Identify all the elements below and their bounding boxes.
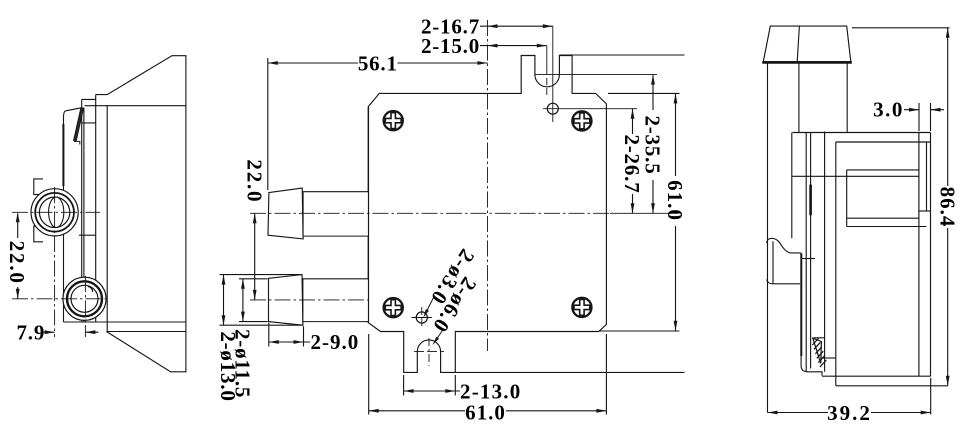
dimension 2-16.7 [480,25,553,27]
svg-text:7.9: 7.9 [16,321,45,345]
dimension 22.0 center [254,213,256,300]
left view upper port centerlines [12,211,100,213]
dimension 3.0 [918,103,920,131]
dimension 2-o13.0 [223,275,225,326]
svg-text:61.0: 61.0 [663,180,687,221]
dimension 2-9.0 [268,323,270,347]
right view rubber wedge with hatching [813,338,822,363]
bottom small hole [416,312,427,323]
svg-text:2-ø13.0: 2-ø13.0 [216,331,240,401]
lower hose barb tip [269,275,303,326]
dimension 86.4 [852,27,950,29]
svg-text:56.1: 56.1 [358,51,398,75]
right view nozzle stem [798,64,800,133]
left view pump head outline [64,99,96,322]
lower hose barb neck [303,279,369,322]
vertical centerline [487,20,489,351]
top small hole [547,103,558,114]
right view pump head column [801,253,822,376]
screw top-left [384,111,403,130]
dimension 39.2 [930,378,932,415]
dimension 2-13.0 [403,375,405,396]
dimension 7.9 left view [42,331,55,333]
center view body outline with tabs [368,56,606,373]
dimension 2-26.7 [632,109,634,134]
bottom arch centerlines [414,351,444,353]
right view left edge [767,64,769,413]
extension line tab top right [559,54,684,56]
svg-text:22.0: 22.0 [242,159,266,203]
dimension 22.0 left view [17,214,19,239]
left view upper port flange tabs [34,179,43,195]
screw bottom-right [572,298,591,317]
left view clip detail [74,108,84,141]
top notch centerlines [535,74,657,76]
left view motor body outline [96,56,186,372]
right view bottom extension 86.4 [836,385,948,387]
leader 2-o6.0 [434,331,442,343]
dimension 61.0 right [675,93,677,176]
screw bottom-left [384,298,403,317]
upper hose barb neck [303,192,368,236]
svg-text:61.0: 61.0 [465,400,506,424]
main horizontal centerline [250,212,610,214]
dimension 2-35.5 [652,75,654,110]
dimension 56.1 [268,62,358,64]
extension line tab bottom right [455,371,684,373]
right view bracket [791,133,793,239]
right view nozzle cap [763,26,851,62]
dimension 2-15.0 [480,45,547,47]
svg-text:2-15.0: 2-15.0 [421,34,480,58]
left view boss edge line [79,234,96,236]
center body left edge over barbs [368,107,370,322]
upper hose barb tip [268,188,303,239]
left view lower port [63,277,106,320]
dimension 2-o11.5 [242,279,244,322]
svg-text:39.2: 39.2 [827,401,872,425]
screw top-right [572,111,591,130]
svg-text:3.0: 3.0 [873,98,904,122]
svg-text:86.4: 86.4 [935,187,959,228]
svg-text:2-9.0: 2-9.0 [311,330,360,354]
lower inlet centerline [250,299,369,301]
leader 2-o3.0 [425,298,434,315]
dimension 61.0 bottom [368,334,370,415]
right view motor body [793,132,931,134]
svg-text:22.0: 22.0 [5,241,29,285]
svg-text:2-26.7: 2-26.7 [620,134,644,193]
left view upper port [31,189,78,236]
left view lower port centerlines [12,298,106,300]
